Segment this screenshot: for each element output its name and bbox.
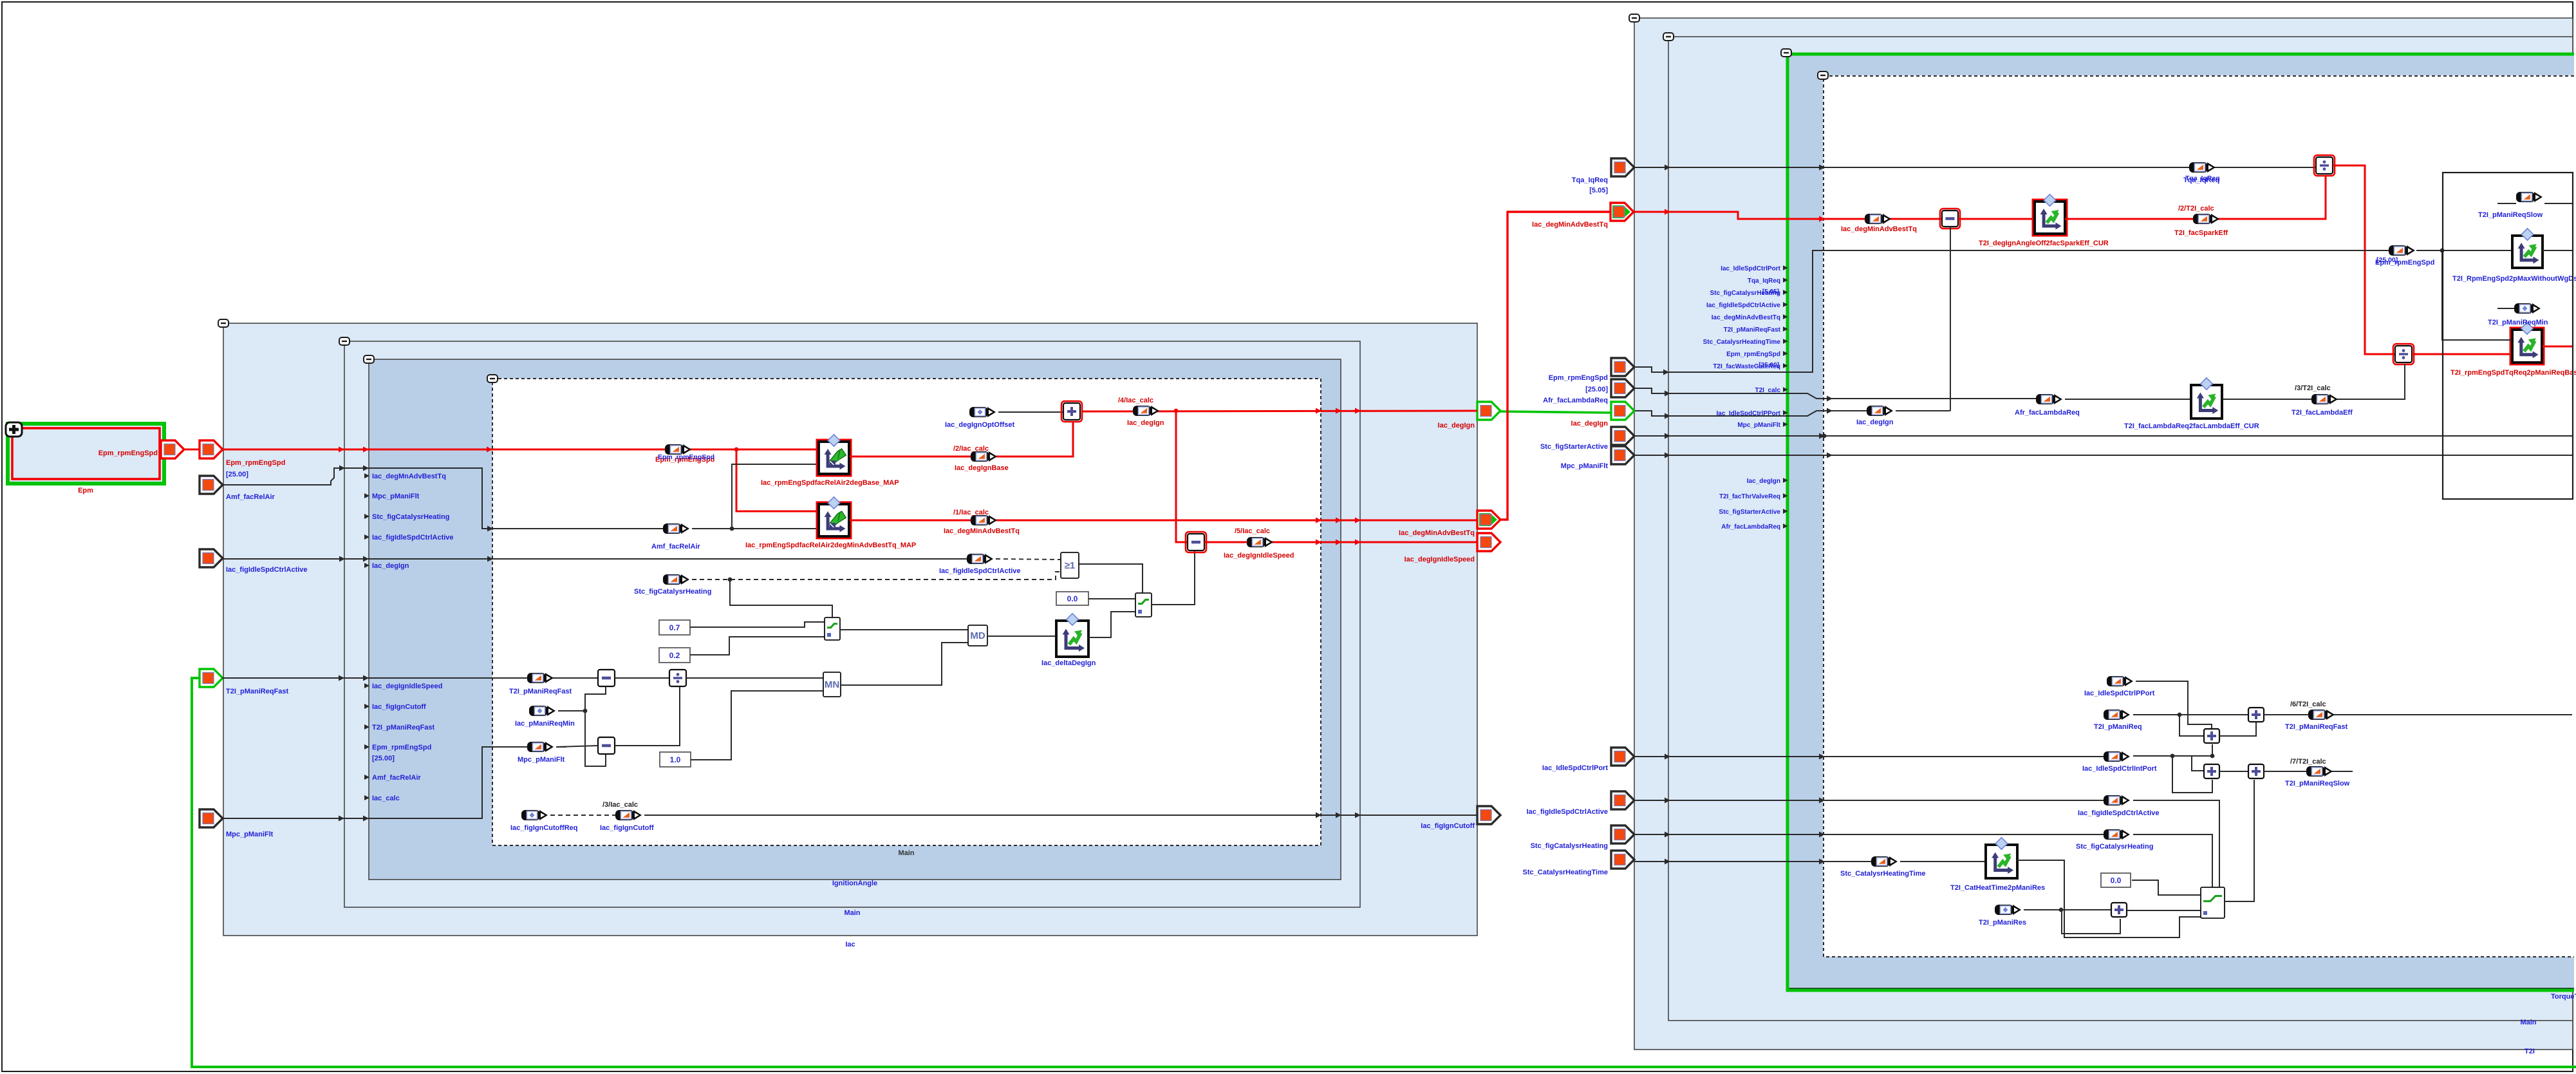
wire Iac_figIdleSpdCtrlActive	[222, 558, 969, 560]
junction arrow catt2	[1819, 859, 1825, 865]
junction arrow catt	[1665, 859, 1670, 865]
input port Afr_facLambdaReq (T2I)	[1611, 379, 1634, 397]
svg-text:/3/T2I_calc: /3/T2I_calc	[2295, 384, 2331, 392]
junction arrow red out 2	[1336, 518, 1341, 523]
wire red to minusA	[1176, 411, 1188, 542]
svg-text:Iac_degIgnIdleSpeed: Iac_degIgnIdleSpeed	[1224, 552, 1294, 560]
wire minus2 to div	[615, 687, 680, 746]
wire min up to minus1	[585, 687, 606, 711]
svg-text:/5/Iac_calc: /5/Iac_calc	[1235, 527, 1270, 535]
signal marker Iac_IdleSpdCtrlIntPort	[2104, 751, 2130, 762]
collapse button T2I panel	[1629, 14, 1639, 22]
junction arrow red ign 1	[1316, 408, 1321, 414]
panel Main right (level 2)	[1668, 37, 2573, 1021]
svg-text:Mpc_pManiFlt: Mpc_pManiFlt	[1561, 462, 1609, 470]
pin row Iac_calc	[364, 795, 400, 802]
svg-text:Iac_degIgn: Iac_degIgn	[1438, 422, 1475, 429]
wire plusE to switch3	[2127, 910, 2201, 911]
input port Iac_figIdleSpdCtrlActive (T2I)	[1611, 791, 1634, 809]
wire dashed fig to OR	[996, 559, 1061, 560]
junction arrow mpc 2	[363, 816, 369, 822]
wire cutoff to port	[644, 815, 1477, 816]
signal marker T2I_facSparkEff	[2193, 214, 2219, 224]
svg-text:≥1: ≥1	[1065, 560, 1076, 571]
curve block T2I_rpmEngSpdTqReq2pManiReqB CUR	[2510, 323, 2544, 364]
green panel pin Iac_IdleSpdCtrlPPort	[1717, 410, 1788, 417]
wire Mpc_pManiFlt	[222, 747, 527, 818]
svg-text:T2I_pManiReqFast: T2I_pManiReqFast	[2285, 723, 2348, 731]
wire plusB to plusA	[2219, 722, 2256, 736]
svg-text:/4/Iac_calc: /4/Iac_calc	[1118, 397, 1153, 404]
wire pManiReqSlow stub	[2497, 203, 2516, 204]
junction arrow red idl 3	[1355, 540, 1361, 545]
svg-text:Main: Main	[2520, 1019, 2536, 1026]
svg-text:Iac_deltaDegIgn: Iac_deltaDegIgn	[1041, 659, 1096, 667]
signal marker Iac_figIdleSpdCtrlActive r	[2104, 795, 2130, 805]
wire marker to minus2	[556, 746, 598, 747]
sub-block frame (white box)	[2443, 173, 2573, 499]
svg-text:T2I_pManiReqSlow: T2I_pManiReqSlow	[2285, 780, 2350, 787]
svg-text:Main: Main	[898, 849, 914, 857]
pin row Amf_facRelAir	[364, 774, 422, 782]
wire CatTime to CUR	[1900, 861, 1985, 862]
wire Mpc_pManiFlt long	[1634, 455, 2572, 456]
junction arrow red ign 3	[1355, 408, 1361, 414]
node pManiRes	[2059, 908, 2064, 912]
wire dashed CatHeating	[692, 572, 1062, 579]
signal marker T2I_pManiReqFast	[527, 673, 554, 683]
svg-text:Epm: Epm	[78, 487, 93, 495]
wire IntPort up to plusB bottom	[2212, 744, 2213, 756]
input port T2I_pManiReqFast	[200, 669, 223, 687]
divide block	[669, 670, 686, 686]
wire Epm to Iac port	[184, 449, 201, 451]
signal marker Iac_degIgn r	[1867, 406, 1893, 416]
svg-text:T2I_pManiReqFast: T2I_pManiReqFast	[509, 688, 572, 695]
pin row Iac_degIgn	[364, 562, 409, 570]
junction arrow fig 2	[363, 556, 369, 562]
wire SparkEff out red	[2065, 175, 2326, 219]
svg-text:Iac_degIgnOptOffset: Iac_degIgnOptOffset	[945, 421, 1015, 429]
node Amf junction	[730, 527, 734, 531]
wire min down to minus2	[585, 711, 606, 766]
svg-text:Mpc_pManiFlt: Mpc_pManiFlt	[226, 831, 274, 838]
signal marker T2I_pManiReqSlow r	[2306, 766, 2333, 777]
svg-text:Tqa_IqReq: Tqa_IqReq	[1572, 176, 1608, 184]
node starter dashed	[1822, 434, 1827, 438]
module block T2I (outer panel)	[1634, 18, 2573, 1050]
collapse button dashed Main panel	[487, 375, 498, 382]
svg-text:IgnitionAngle: IgnitionAngle	[832, 880, 877, 887]
svg-text:T2I_pManiReqFast: T2I_pManiReqFast	[372, 724, 435, 731]
signal marker Afr_facLambdaReq	[2036, 394, 2062, 404]
svg-text:Stc_CatalysrHeatingTime: Stc_CatalysrHeatingTime	[1523, 869, 1608, 876]
signal marker Iac_degMinAdvBestTq r	[1865, 214, 1891, 224]
wire div2 out red	[2412, 353, 2512, 355]
wire pManiRes loop	[2062, 910, 2120, 934]
svg-text:0.7: 0.7	[669, 623, 680, 632]
svg-text:Iac: Iac	[845, 941, 855, 948]
junction arrow fast 2	[363, 675, 369, 681]
wire CatHeating to switch3	[2133, 834, 2212, 887]
panel Main right (dashed diagram area)	[1823, 75, 2574, 957]
junction arrow Amf 1	[339, 466, 345, 471]
wire MAP1 out red	[850, 422, 1073, 457]
input port Epm_rpmEngSpd (Iac)	[200, 440, 223, 458]
wire red MinAdvBestTq inner	[1634, 212, 1941, 219]
svg-text:Main: Main	[844, 909, 860, 917]
input port Epm_rpmEngSpd (T2I)	[1611, 358, 1634, 376]
output port Iac_figIgnCutoff	[1477, 806, 1500, 824]
wire minusA out red	[1204, 542, 1477, 543]
subtract block minusA	[1186, 532, 1206, 552]
wire T2I_pManiReqFast	[222, 677, 598, 679]
junction arrow espd	[1663, 370, 1669, 375]
svg-text:Iac_figIgnCutoff: Iac_figIgnCutoff	[1421, 822, 1475, 830]
svg-text:Iac_degIgn: Iac_degIgn	[1127, 419, 1164, 427]
green panel pin Iac_figIdleSpdCtrlActive	[1706, 302, 1788, 309]
svg-text:T2I_RpmEngSpd2pMaxWithoutWgDs: T2I_RpmEngSpd2pMaxWithoutWgDs	[2452, 275, 2576, 283]
junction arrow minadv	[1665, 209, 1670, 215]
wire IntPort loop to plusC bottom	[2172, 756, 2212, 793]
wire figIdleSpdCtrlActive r	[1634, 800, 2105, 801]
svg-text:MN: MN	[825, 679, 839, 690]
signal marker Stc_CatalysrHeatingTime	[1871, 856, 1898, 867]
wire Amf to MAP2 in2	[732, 528, 819, 529]
svg-text:/3/Iac_calc: /3/Iac_calc	[602, 801, 638, 809]
wire green feedback loop	[192, 678, 2576, 1067]
green panel pin Mpc_pManiFlt	[1737, 422, 1787, 429]
signal marker T2I_pManiRes	[1995, 905, 2021, 915]
wire 0.2 to switch1	[690, 637, 825, 655]
signal marker Epm_rpmEngSpd r	[2389, 245, 2415, 256]
wire CatalysrHeating r	[1634, 834, 2105, 835]
collapse button green panel	[1781, 49, 1791, 57]
svg-text:Iac_degMinAdvBestTq: Iac_degMinAdvBestTq	[1532, 221, 1608, 229]
pin row Epm_rpmEngSpd	[364, 744, 431, 751]
svg-text:T2I_facWasteGateReq: T2I_facWasteGateReq	[1713, 363, 1780, 370]
signal marker T2I_pManiReqFast r	[2308, 710, 2335, 720]
svg-text:Mpc_pManiFlt: Mpc_pManiFlt	[518, 756, 565, 764]
wire OptOffset to plus	[998, 411, 1063, 413]
wire 1.0 to MN	[691, 691, 825, 760]
svg-text:Iac_degMnAdvBestTq: Iac_degMnAdvBestTq	[372, 473, 446, 480]
wire Epm_rpmEngSpd red main	[222, 449, 819, 451]
wire Amf_facRelAir	[222, 468, 665, 529]
svg-text:Iac_degMinAdvBestTq: Iac_degMinAdvBestTq	[944, 527, 1020, 535]
junction arrow red out 1	[1316, 518, 1321, 523]
svg-text:0.0: 0.0	[2111, 876, 2122, 885]
wire MN to MD	[841, 643, 968, 685]
wire plusA out	[2264, 714, 2572, 715]
wire 0.0 to switch2	[1088, 598, 1135, 599]
svg-text:Epm_rpmEngSpd: Epm_rpmEngSpd	[226, 459, 285, 467]
svg-text:Iac_figIdleSpdCtrlActive: Iac_figIdleSpdCtrlActive	[2078, 809, 2160, 817]
junction arrow mpc 1	[339, 816, 344, 822]
wire pManiRes to plusE	[2024, 909, 2112, 910]
svg-text:Stc_figCatalysrHeating: Stc_figCatalysrHeating	[372, 513, 449, 521]
svg-text:Amf_facRelAir: Amf_facRelAir	[226, 493, 275, 501]
wire MD to deltaDegIgn	[987, 636, 1056, 637]
wire MAP2 out red	[850, 520, 1477, 522]
svg-text:Iac_degIgnBase: Iac_degIgnBase	[955, 464, 1009, 472]
signal marker Iac_degIgnOptOffset	[969, 407, 996, 417]
svg-text:Iac_degIgn: Iac_degIgn	[372, 562, 409, 570]
panel TorqueToIgnAngle (green bordered)	[1786, 53, 2574, 990]
junction arrow fig 3	[487, 556, 493, 562]
svg-text:Stc_figCatalysrHeating: Stc_figCatalysrHeating	[1531, 842, 1608, 850]
svg-text:T2I_facLambdaEff: T2I_facLambdaEff	[2291, 409, 2353, 417]
add block plusC	[2204, 764, 2219, 778]
junction arrow red 3	[487, 447, 492, 453]
svg-text:Stc_figStarterActive: Stc_figStarterActive	[1540, 443, 1608, 451]
green panel pin Stc_figCatalysrHeating	[1710, 288, 1788, 297]
panel Main (level 2)	[344, 341, 1360, 907]
wire red MinAdvBestTq riser	[1500, 212, 1611, 520]
green panel pin T2I_pManiReqFast	[1724, 326, 1788, 334]
panel IgnitionAngle (level 3)	[369, 359, 1341, 880]
signal marker Iac_pManiReqMin	[529, 706, 555, 716]
svg-text:[25.00]: [25.00]	[1585, 386, 1608, 393]
output port Iac_degIgn	[1477, 402, 1500, 420]
svg-text:Stc_figStarterActive: Stc_figStarterActive	[1719, 509, 1780, 516]
subtract block minus2	[598, 737, 615, 754]
wire div to MN	[686, 677, 825, 679]
svg-text:T2I_facSparkEff: T2I_facSparkEff	[2174, 229, 2228, 237]
svg-text:Epm_rpmEngSpd: Epm_rpmEngSpd	[1726, 351, 1780, 358]
svg-text:Amf_facRelAir: Amf_facRelAir	[372, 774, 422, 782]
junction arrow Amf 3	[487, 526, 493, 532]
wire 0.7 to switch1	[690, 622, 825, 627]
wire switch3 to plusD	[2225, 780, 2254, 901]
svg-text:Afr_facLambdaReq: Afr_facLambdaReq	[1721, 523, 1780, 531]
signal marker T2I_facLambdaEff	[2311, 394, 2338, 404]
svg-text:/7/T2I_calc: /7/T2I_calc	[2290, 758, 2326, 766]
svg-text:Iac_figIdleSpdCtrlActive: Iac_figIdleSpdCtrlActive	[1526, 808, 1608, 816]
junction arrow cathr	[1665, 832, 1670, 838]
svg-text:MD: MD	[970, 630, 985, 641]
junction arrow afr	[1665, 391, 1670, 397]
logic block OR >=1	[1061, 552, 1079, 578]
wire 0.0 to switch3	[2132, 880, 2201, 895]
green panel pin Tqa_IqReq	[1748, 278, 1788, 285]
max block MD	[968, 625, 987, 646]
svg-text:Stc_figCatalysrHeating: Stc_figCatalysrHeating	[1710, 290, 1780, 297]
wire Iac_degIgn inner	[1635, 411, 1869, 416]
collapse button IgnitionAngle panel	[364, 355, 374, 363]
svg-text:T2I_pManiRes: T2I_pManiRes	[1979, 919, 2026, 927]
wire CatHeating to switch ctrl	[730, 579, 832, 617]
wire Epm to MaxWithoutWg	[2416, 250, 2512, 251]
signal marker Amf_facRelAir	[663, 523, 689, 534]
green panel pin Iac_degMinAdvBestTq	[1712, 314, 1788, 321]
pin row Iac_figIgnCutoff	[364, 703, 426, 711]
pin row Iac_figIdleSpdCtrlActive	[364, 534, 454, 542]
collapse button dashed right panel	[1818, 71, 1828, 79]
wire IntPort jog to plusC	[2192, 756, 2204, 771]
svg-text:Iac_degIgnIdleSpeed: Iac_degIgnIdleSpeed	[1405, 556, 1475, 563]
signal marker Iac_figIgnCutoffReq	[521, 810, 548, 820]
wire Afr_facLambdaReq	[1634, 388, 2038, 399]
svg-text:Mpc_pManiFlt: Mpc_pManiFlt	[1737, 422, 1780, 429]
curve block T2I_facLambdaReq2facLambdaEff_CUR	[2191, 378, 2222, 419]
input port Stc_CatalysrHeatingTime (T2I)	[1611, 851, 1634, 869]
wire green Iac_degIgn to T2I	[1500, 411, 1612, 413]
green panel pin T2I_calc	[1755, 387, 1788, 394]
input port Iac_degMinAdvBestTq (T2I)	[1610, 203, 1634, 221]
svg-text:Iac_calc: Iac_calc	[372, 795, 400, 802]
wire Epm junction down to pManiReqB	[2442, 250, 2512, 340]
wire minus3 lower input	[1950, 227, 1951, 411]
svg-text:T2I_rpmEngSpdTqReq2pManiReqBas: T2I_rpmEngSpdTqReq2pManiReqBas	[2450, 369, 2576, 377]
wire CatalysrHeatingTime r	[1634, 861, 1873, 862]
svg-text:/2/T2I_calc: /2/T2I_calc	[2178, 205, 2214, 212]
junction arrow figr2	[1819, 798, 1825, 804]
node pManiReq	[2178, 713, 2182, 717]
signal marker T2I_pManiReq	[2104, 710, 2130, 720]
svg-text:T2I_pManiReq: T2I_pManiReq	[2094, 723, 2142, 731]
node pManiReqMin	[583, 709, 588, 713]
junction arrow tqa 2	[1819, 165, 1825, 171]
wire degIgn to minus3 riser	[1896, 410, 1950, 411]
wire Amf to MAP junction	[692, 464, 819, 529]
svg-text:Iac_degIgn: Iac_degIgn	[1571, 420, 1609, 428]
input port Iac_IdleSpdCtrlPort (T2I)	[1611, 748, 1634, 766]
junction arrow afr2	[1827, 396, 1833, 402]
svg-text:Iac_figIgnCutoff: Iac_figIgnCutoff	[600, 824, 654, 832]
svg-text:Epm_rpmEngSpd: Epm_rpmEngSpd	[98, 449, 158, 457]
svg-text:Iac_IdleSpdCtrlIntPort: Iac_IdleSpdCtrlIntPort	[2082, 765, 2157, 773]
signal marker Iac_IdleSpdCtrlPPort	[2107, 676, 2133, 686]
svg-text:T2I_facLambdaReq2facLambdaEff_: T2I_facLambdaReq2facLambdaEff_CUR	[2124, 422, 2259, 430]
signal marker Stc_figCatalysrHeating r	[2104, 829, 2130, 840]
wire pManiReqSlow out	[2544, 203, 2572, 204]
svg-text:Afr_facLambdaReq: Afr_facLambdaReq	[2015, 409, 2080, 417]
junction arrow red 2	[363, 447, 369, 453]
green panel pin Epm_rpmEngSpd	[1726, 351, 1788, 358]
junction arrow fast 1	[339, 675, 344, 681]
svg-text:Tqa_IqReq: Tqa_IqReq	[2185, 174, 2220, 182]
input port Stc_figStarterActive (T2I)	[1611, 427, 1634, 445]
green panel pin Stc_CatalysrHeatingTime	[1703, 339, 1788, 346]
input port Iac_degIgn (T2I)	[1611, 402, 1634, 420]
map block Iac_rpmEngSpdfacRelAir2degMinAdvBestTq_MAP	[817, 497, 851, 538]
wire IntPort row	[2133, 755, 2212, 757]
junction arrow red ign 2	[1336, 408, 1341, 414]
signal marker Iac_degIgnIdleSpeed	[1247, 537, 1273, 547]
wire OR out to switch2	[1079, 564, 1143, 593]
svg-text:Iac_figIdleSpdCtrlActive: Iac_figIdleSpdCtrlActive	[372, 534, 454, 542]
green panel pin Afr_facLambdaReq	[1721, 523, 1787, 531]
signal marker Iac_degMinAdvBestTq	[971, 515, 997, 525]
junction arrow intp	[1665, 754, 1670, 760]
constant 1.0	[660, 752, 691, 767]
junction arrow fig 1	[339, 556, 345, 562]
svg-text:[25.00]: [25.00]	[2376, 256, 2398, 264]
svg-text:/2/Iac_calc: /2/Iac_calc	[953, 445, 989, 453]
wire plusC to plusD	[2219, 771, 2248, 772]
svg-text:Stc_figCatalysrHeating: Stc_figCatalysrHeating	[634, 588, 711, 596]
input port Iac_figIdleSpdCtrlActive	[200, 549, 223, 567]
signal marker T2I_pManiReqSlow top	[2516, 192, 2543, 202]
input port Stc_figCatalysrHeating (T2I)	[1611, 825, 1634, 843]
svg-text:Iac_degMinAdvBestTq: Iac_degMinAdvBestTq	[1399, 529, 1475, 537]
wire Epm speed right cluster	[1634, 250, 2389, 372]
svg-text:Tqa_IqReq: Tqa_IqReq	[1748, 278, 1780, 285]
svg-text:T2I_facThrValveReq: T2I_facThrValveReq	[1719, 493, 1780, 500]
svg-text:Iac_degIgn: Iac_degIgn	[1747, 478, 1780, 485]
svg-text:Iac_rpmEngSpdfacRelAir2degBase: Iac_rpmEngSpdfacRelAir2degBase_MAP	[761, 479, 899, 487]
wire div1 out red	[2333, 165, 2396, 354]
add block plusA	[2248, 708, 2264, 722]
min block MN	[823, 672, 841, 697]
junction arrow mpcr2	[1827, 453, 1833, 458]
svg-text:Afr_facLambdaReq: Afr_facLambdaReq	[1543, 397, 1608, 404]
output port Iac_degIgnIdleSpeed	[1477, 533, 1500, 551]
node IntPort	[2170, 754, 2175, 758]
green panel pin Iac_IdleSpdCtrlPort	[1721, 265, 1787, 272]
green panel pin Stc_figStarterActive	[1719, 509, 1787, 516]
green panel pin T2I_facThrValveReq	[1719, 493, 1788, 500]
signal marker Iac_figIdleSpdCtrlActive	[967, 554, 993, 564]
svg-text:T2I_pManiReqSlow: T2I_pManiReqSlow	[2478, 211, 2543, 219]
wire pManiReqB out red	[2543, 346, 2572, 348]
signal marker Tqa_IqReq	[2189, 162, 2216, 173]
svg-text:Iac_figIgnCutoffReq: Iac_figIgnCutoffReq	[510, 824, 578, 832]
junction arrow Amf 2	[363, 466, 369, 471]
wire pManiReq branch to plusB	[2179, 715, 2205, 736]
node IntPort b	[2210, 754, 2215, 758]
svg-text:Iac_pManiReqMin: Iac_pManiReqMin	[515, 720, 575, 728]
signal marker Iac_degIgn out	[1133, 406, 1159, 416]
junction arrow minadv2	[1819, 216, 1825, 222]
svg-text:TorqueToIgnAngle: TorqueToIgnAngle	[2551, 993, 2576, 1001]
svg-text:Iac_degMinAdvBestTq: Iac_degMinAdvBestTq	[1841, 225, 1917, 233]
signal marker Iac_figIgnCutoff	[615, 810, 642, 820]
svg-text:/6/T2I_calc: /6/T2I_calc	[2290, 701, 2326, 708]
junction arrow dign	[1665, 413, 1670, 419]
input port Mpc_pManiFlt (T2I)	[1611, 446, 1634, 464]
wire Stc_figStarterActive long	[1634, 435, 2572, 437]
svg-text:Iac_degMinAdvBestTq: Iac_degMinAdvBestTq	[1712, 314, 1780, 321]
svg-text:Mpc_pManiFlt: Mpc_pManiFlt	[372, 493, 420, 500]
collapse button Iac panel	[218, 319, 229, 327]
curve block T2I_RpmEngSpd2pMaxWithoutWg	[2512, 229, 2543, 268]
svg-text:T2I_CatHeatTime2pManiRes: T2I_CatHeatTime2pManiRes	[1950, 884, 2045, 892]
green panel pin Iac_degIgn	[1747, 478, 1788, 485]
svg-text:Iac_figIdleSpdCtrlActive: Iac_figIdleSpdCtrlActive	[939, 567, 1021, 575]
junction arrow mpcr	[1665, 453, 1670, 458]
junction arrow red 1	[339, 447, 344, 453]
add block plusE	[2111, 903, 2127, 917]
signal marker Stc_figCatalysrHeating	[663, 574, 689, 585]
map block Iac_rpmEngSpdfacRelAir2degBase_MAP	[817, 435, 851, 476]
junction arrow cathr2	[1819, 832, 1825, 838]
junction arrow figr	[1665, 798, 1670, 804]
add block plus1	[1061, 401, 1082, 422]
svg-text:Iac_degIgnIdleSpeed: Iac_degIgnIdleSpeed	[372, 683, 442, 690]
svg-text:T2I_degIgnAngleOff2facSparkEff: T2I_degIgnAngleOff2facSparkEff_CUR	[1979, 240, 2109, 247]
signal marker T2I_pManiReqMin	[2514, 303, 2541, 314]
signal marker Mpc_pManiFlt	[527, 742, 554, 752]
svg-text:T2I_pManiReqFast: T2I_pManiReqFast	[226, 688, 289, 695]
divide block div1	[2314, 155, 2335, 176]
switch block 3	[2201, 887, 2225, 918]
node CatHeating	[728, 578, 733, 582]
wire minus1 to div	[615, 677, 671, 679]
characteristic block Iac_deltaDegIgn	[1056, 614, 1088, 657]
input port Tqa_IqReq (T2I)	[1611, 158, 1634, 176]
